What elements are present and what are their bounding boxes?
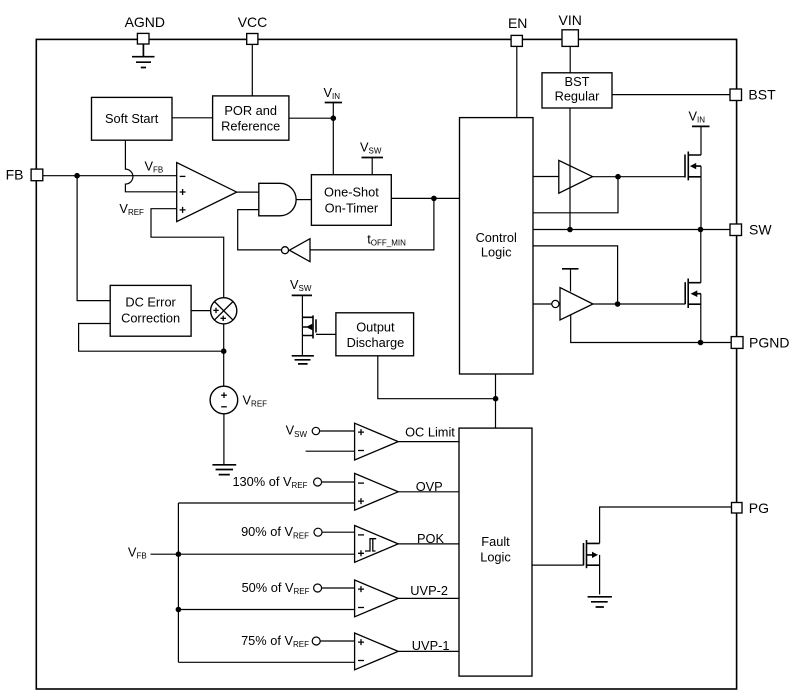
svg-text:POK: POK xyxy=(417,531,444,546)
node VFB bus junction xyxy=(176,551,182,557)
supply VSW tap for discharge FET xyxy=(290,277,312,295)
wire DC Error Correction to multiplier xyxy=(191,310,211,312)
node SW-FET junction xyxy=(698,227,704,233)
op-amp POK comparator with hysteresis xyxy=(355,526,399,563)
op-amp error comparator xyxy=(177,163,237,222)
wire comparator to AND gate xyxy=(237,191,259,193)
wire high driver feedback to Control Logic xyxy=(533,177,618,213)
node high driver output xyxy=(615,174,621,180)
svg-text:Regular: Regular xyxy=(555,88,601,103)
wire POK input xyxy=(322,531,355,533)
wire bus to UVP-1 input xyxy=(178,661,354,663)
op-amp low-side driver xyxy=(552,288,593,320)
wire Soft Start to comparator with hop xyxy=(125,140,176,192)
node fault junction xyxy=(493,396,499,402)
node low driver output xyxy=(615,301,621,307)
wire FB to DC Error Correction xyxy=(77,176,110,301)
svg-text:tOFF_MIN: tOFF_MIN xyxy=(367,232,406,248)
svg-text:Discharge: Discharge xyxy=(347,335,405,350)
pin VCC xyxy=(238,14,268,44)
op-amp OVP comparator xyxy=(355,473,399,510)
supply VIN tap above One-Shot xyxy=(324,85,343,175)
wire UVP-1 input xyxy=(320,640,354,642)
pin EN xyxy=(508,15,527,46)
supply VIN tap for high FET xyxy=(689,109,710,127)
svg-text:PG: PG xyxy=(749,500,769,516)
svg-text:75% of VREF: 75% of VREF xyxy=(241,633,309,649)
svg-text:AGND: AGND xyxy=(125,14,165,30)
wire Output Discharge to fault node xyxy=(378,356,496,399)
svg-text:On-Timer: On-Timer xyxy=(325,200,379,215)
wire One-Shot output to Control Logic xyxy=(391,197,459,199)
svg-text:VIN: VIN xyxy=(559,12,582,28)
terminal circle UVP-2 input xyxy=(314,584,322,592)
op-amp high-side driver xyxy=(559,160,593,193)
op-amp UVP-2 comparator xyxy=(355,580,399,617)
transistor high-side FET xyxy=(685,126,701,229)
voltage source VREF xyxy=(210,386,267,414)
node One-Shot output junction xyxy=(431,196,437,202)
svg-text:One-Shot: One-Shot xyxy=(324,185,379,200)
block DC Error Correction xyxy=(110,285,191,336)
pin PG xyxy=(732,500,770,516)
svg-text:FB: FB xyxy=(6,167,24,183)
svg-text:Logic: Logic xyxy=(480,549,511,564)
ground below AGND xyxy=(132,44,155,68)
svg-text:VIN: VIN xyxy=(324,85,341,101)
wire VREF source to ground xyxy=(223,414,225,465)
wire low driver feedback to Control Logic xyxy=(533,246,618,304)
svg-text:VFB: VFB xyxy=(145,159,164,175)
svg-text:VREF: VREF xyxy=(119,201,144,217)
svg-text:VSW: VSW xyxy=(360,140,382,156)
terminal circle OVP input xyxy=(314,478,322,486)
ground below PG FET xyxy=(588,597,612,607)
svg-text:Correction: Correction xyxy=(121,310,180,325)
wire tOFF_MIN feedback to inverter xyxy=(310,198,434,250)
svg-text:VSW: VSW xyxy=(290,277,312,293)
terminal circle POK input xyxy=(314,528,322,536)
wire POK output to Fault Logic xyxy=(398,543,459,545)
svg-text:Logic: Logic xyxy=(481,245,512,260)
wire bus to OVP input xyxy=(178,502,354,504)
svg-text:BST: BST xyxy=(748,87,776,103)
wire OVP input xyxy=(322,481,355,483)
block BST Regular xyxy=(542,73,612,108)
svg-text:POR and: POR and xyxy=(224,103,277,118)
pin VIN xyxy=(559,12,582,47)
wire VFB to POK input xyxy=(151,553,355,555)
transistor low-side FET xyxy=(685,230,701,343)
wire bus to UVP-2 input xyxy=(178,609,354,611)
wire AND to One-Shot xyxy=(296,199,311,201)
svg-text:PGND: PGND xyxy=(749,334,789,350)
node bus UVP-2 junction xyxy=(176,607,182,613)
wire inverter to AND gate xyxy=(238,210,281,250)
svg-text:VCC: VCC xyxy=(238,14,268,30)
wire VREF from multiplier to comparator xyxy=(151,209,224,298)
svg-text:UVP-2: UVP-2 xyxy=(410,583,448,598)
op-amp OC Limit comparator xyxy=(355,423,399,460)
svg-text:SW: SW xyxy=(749,221,772,237)
wire Control Logic to Fault Logic xyxy=(495,374,497,428)
pin AGND xyxy=(125,14,165,44)
supply tap for low driver xyxy=(562,268,579,270)
pin PGND xyxy=(731,334,789,350)
pin SW xyxy=(730,221,772,237)
transistor PG FET xyxy=(584,540,600,594)
svg-text:UVP-1: UVP-1 xyxy=(412,638,450,653)
multiplier summing node xyxy=(211,298,237,324)
svg-text:Control: Control xyxy=(476,230,517,245)
node VIN-POR junction xyxy=(331,115,337,121)
svg-text:EN: EN xyxy=(508,15,527,31)
wire multiplier to VREF source xyxy=(223,324,225,386)
pin BST xyxy=(730,87,776,103)
wire Fault Logic to PG FET gate xyxy=(532,564,584,566)
block POR and Reference xyxy=(213,96,289,140)
svg-text:50% of VREF: 50% of VREF xyxy=(242,580,310,596)
block One-Shot On-Timer xyxy=(311,175,391,226)
transistor discharge FET xyxy=(302,295,336,355)
wire Soft Start to POR xyxy=(172,117,213,119)
svg-text:Soft Start: Soft Start xyxy=(105,111,159,126)
wire SW line xyxy=(533,229,730,231)
wire UVP-2 output to Fault Logic xyxy=(398,597,459,599)
wire OC input xyxy=(320,430,355,432)
supply VSW tap above One-Shot xyxy=(360,140,383,175)
node FB junction xyxy=(74,173,80,179)
node SW-BST rail junction xyxy=(567,227,573,233)
svg-text:90% of VREF: 90% of VREF xyxy=(241,524,309,540)
wire UVP-2 input xyxy=(322,587,355,589)
ground below VREF source xyxy=(212,465,236,475)
svg-text:VREF: VREF xyxy=(243,393,268,409)
svg-text:Output: Output xyxy=(356,320,395,335)
block Fault Logic xyxy=(459,428,532,676)
block Output Discharge xyxy=(336,313,414,356)
op-amp UVP-1 comparator xyxy=(355,633,399,670)
wire POR to VIN node xyxy=(289,117,333,119)
inverter xyxy=(282,239,311,262)
svg-text:Reference: Reference xyxy=(221,118,280,133)
wire EN to Control Logic xyxy=(516,46,518,117)
ground below discharge FET xyxy=(292,356,314,364)
svg-text:VIN: VIN xyxy=(689,109,706,125)
wire VFB bus vertical xyxy=(177,503,179,662)
wire VCC to POR xyxy=(251,44,253,96)
svg-text:VFB: VFB xyxy=(128,545,147,561)
block Soft Start xyxy=(92,97,173,140)
terminal circle OC input xyxy=(312,427,319,434)
block Control Logic xyxy=(460,118,534,374)
wire BST Regular to BST pin xyxy=(612,94,730,96)
svg-text:BST: BST xyxy=(565,74,590,89)
svg-text:OC Limit: OC Limit xyxy=(405,424,455,439)
svg-text:DC Error: DC Error xyxy=(125,294,176,309)
wire Control Logic to high driver xyxy=(533,176,559,178)
svg-text:Fault: Fault xyxy=(481,534,510,549)
node PGND junction xyxy=(698,340,704,346)
wire low driver supply stem xyxy=(570,269,572,292)
wire BST Regular to high driver rail xyxy=(569,108,571,230)
wire high driver output to FET gate xyxy=(593,176,686,178)
wire OC lower stub xyxy=(306,450,355,452)
terminal circle UVP-1 input xyxy=(312,637,320,645)
svg-text:OVP: OVP xyxy=(416,479,443,494)
wire PG FET drain to PG pin xyxy=(600,507,732,543)
wire low driver to PGND line xyxy=(571,315,732,343)
wire UVP-1 output to Fault Logic xyxy=(398,650,459,652)
wire OC output to Fault Logic xyxy=(398,441,459,443)
wire VIN to BST Regular xyxy=(569,46,571,72)
wire DC Error Correction to VREF node xyxy=(79,324,224,352)
wire low driver output to FET gate xyxy=(593,303,685,305)
wire FB to error comparator xyxy=(43,175,177,177)
wire OVP output to Fault Logic xyxy=(398,491,459,493)
wire Control Logic to low driver xyxy=(533,303,552,305)
pin FB xyxy=(6,167,43,183)
svg-text:130% of VREF: 130% of VREF xyxy=(232,474,307,490)
AND gate xyxy=(259,183,296,216)
svg-text:VSW: VSW xyxy=(286,423,308,439)
node VREF line junction xyxy=(221,348,227,354)
